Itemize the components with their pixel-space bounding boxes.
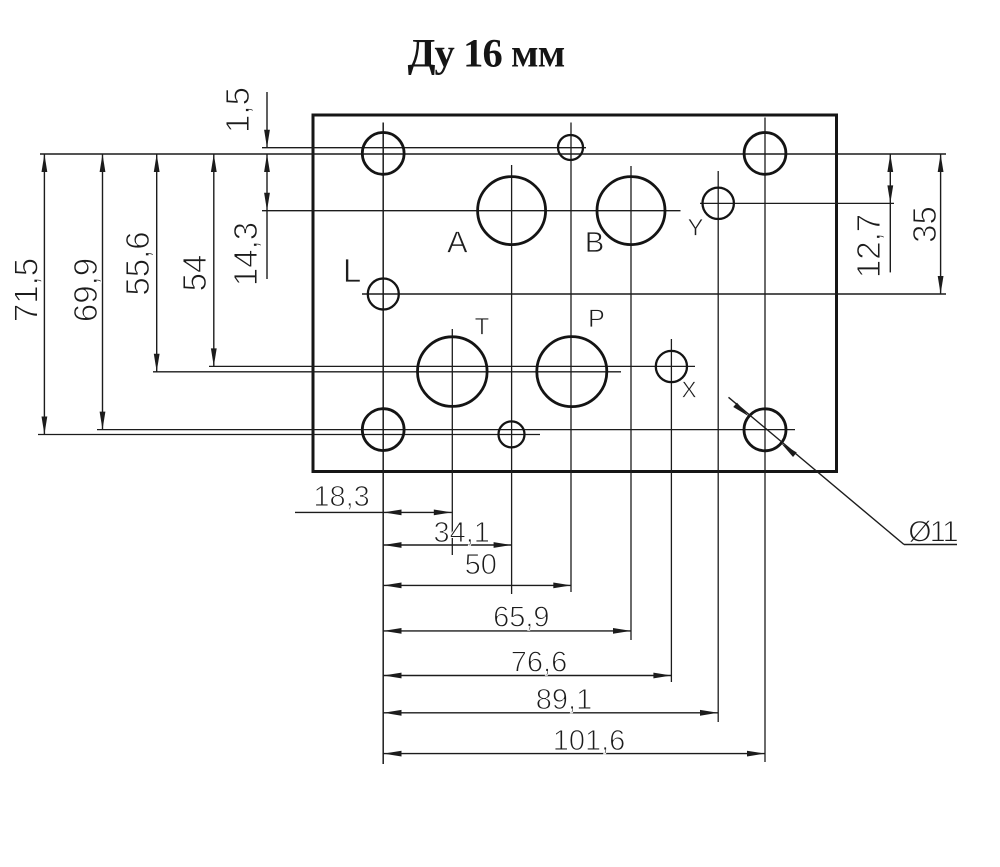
svg-text:76,6: 76,6 (511, 647, 567, 679)
centerline v1 left column (382, 123, 384, 765)
centerline h1 top corner-hole row (40, 153, 946, 155)
centerline h6 X row (209, 365, 695, 367)
dimension 35 (906, 154, 944, 294)
centerline v5 B column (630, 166, 632, 640)
centerline v4 A column (511, 165, 513, 594)
svg-text:55,6: 55,6 (119, 231, 156, 295)
plate outline (313, 115, 837, 472)
dimension 1,5 (219, 87, 270, 148)
svg-text:Y: Y (687, 215, 703, 242)
svg-text:1,5: 1,5 (219, 87, 256, 133)
dimension 14,3 (227, 154, 270, 286)
centerline v2 top-small/P column (570, 123, 572, 593)
svg-text:89,1: 89,1 (536, 684, 592, 716)
svg-text:50: 50 (465, 549, 497, 581)
centerline h7 T/P row (153, 371, 621, 373)
dimension 69,9 (67, 154, 105, 430)
hole top small (558, 135, 583, 160)
svg-text:34,1: 34,1 (433, 517, 489, 549)
svg-text:B: B (585, 227, 604, 259)
hole bottom-right corner (744, 409, 786, 451)
dimension 12,7 (850, 154, 893, 278)
hole bottom-left corner (362, 409, 404, 451)
hole top-right corner (744, 133, 786, 175)
hole B (597, 177, 665, 245)
hole L (368, 279, 399, 310)
hole A (478, 177, 546, 245)
hole P (537, 337, 607, 407)
svg-text:35: 35 (906, 206, 943, 243)
svg-text:Ду 16 мм: Ду 16 мм (408, 31, 565, 76)
centerline v3 right column (764, 118, 766, 763)
dimension leader Ø11 (729, 397, 959, 548)
dimension 18,3 (295, 481, 452, 516)
dimension 71,5 (8, 154, 48, 435)
dimension 54 (176, 154, 217, 366)
centerline h8 bottom corner-hole row (97, 429, 795, 431)
svg-text:X: X (681, 377, 696, 403)
dimension 65,9 (384, 602, 632, 634)
svg-text:12,7: 12,7 (850, 214, 887, 278)
centerline h3 A/B row (262, 210, 681, 212)
hole X (656, 351, 687, 382)
dimension 50 (384, 549, 572, 588)
centerline v6 Y column (717, 171, 719, 722)
dimension 76,6 (384, 647, 672, 679)
hole T (418, 337, 488, 407)
svg-text:71,5: 71,5 (8, 258, 45, 322)
svg-text:101,6: 101,6 (553, 725, 626, 757)
hole bottom small (499, 421, 525, 447)
svg-text:69,9: 69,9 (67, 258, 104, 322)
centerline h5 L row (362, 293, 946, 295)
hole Y (703, 188, 734, 219)
centerline h2 top small hole row (262, 147, 586, 149)
dimension 55,6 (119, 154, 160, 372)
centerline h4 Y row (700, 202, 894, 204)
svg-text:14,3: 14,3 (227, 222, 264, 286)
dimension 89,1 (384, 684, 719, 716)
svg-text:18,3: 18,3 (313, 481, 369, 513)
svg-text:Ø11: Ø11 (908, 516, 958, 549)
dimension 34,1 (384, 517, 512, 549)
centerline h9 bottom small hole row (38, 434, 540, 436)
centerline v8 X column (670, 339, 672, 682)
dimension 101,6 (384, 725, 766, 757)
svg-text:T: T (475, 314, 490, 341)
centerline v7 T column (451, 329, 453, 555)
svg-text:L: L (343, 252, 361, 289)
hole top-left corner (362, 133, 404, 175)
svg-text:A: A (447, 225, 468, 260)
svg-text:54: 54 (176, 255, 213, 292)
svg-text:65,9: 65,9 (493, 602, 549, 634)
svg-text:P: P (588, 305, 605, 333)
